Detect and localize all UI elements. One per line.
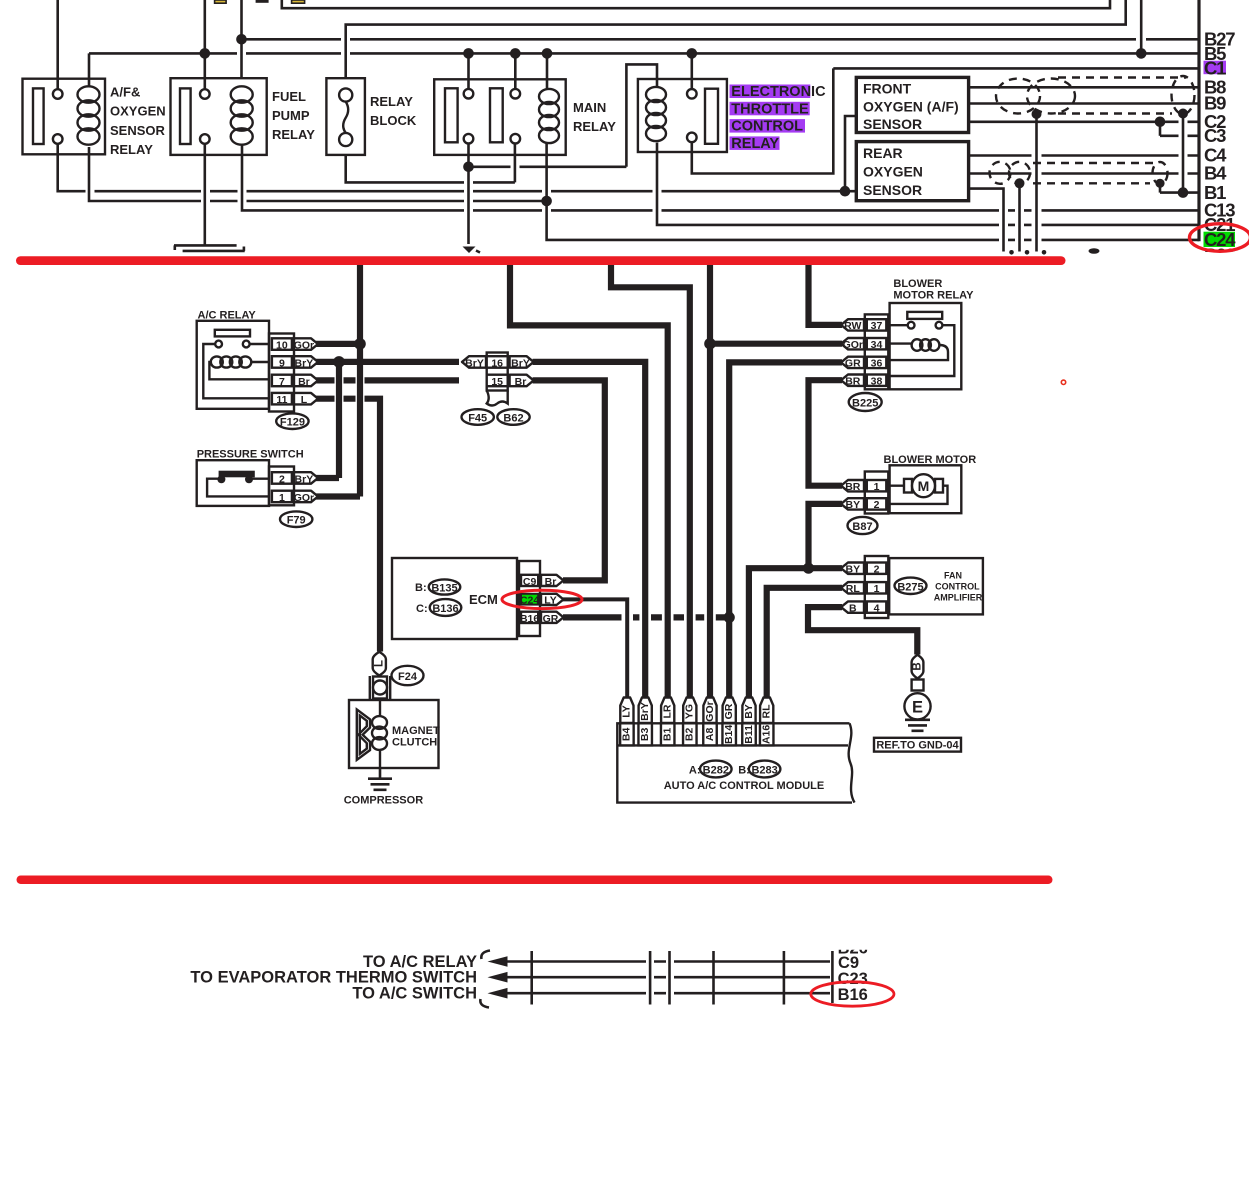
connector boundary bottom — [831, 951, 834, 1003]
label wire colour Br pin7 — [294, 375, 318, 388]
label wire colour BR pin1 — [841, 480, 864, 493]
pin B16 — [520, 613, 539, 625]
svg-text:FAN: FAN — [944, 571, 962, 581]
arrow to evaporator thermo switch — [488, 972, 508, 983]
wire A/C relay pin10 GOr — [316, 341, 360, 347]
ground E earth point — [904, 693, 930, 731]
pin B11 module — [742, 723, 756, 745]
label wire colour BY pin2 — [841, 498, 864, 511]
svg-text:16: 16 — [491, 357, 503, 369]
svg-text:11: 11 — [276, 394, 287, 406]
label MAIN RELAY — [573, 100, 616, 134]
node rear shield right dot — [1155, 179, 1164, 188]
wire A/F relay contact line to sensors — [58, 144, 857, 192]
connector designator F79 — [280, 511, 312, 527]
svg-text:BrY: BrY — [639, 702, 651, 721]
svg-text:B16: B16 — [520, 613, 539, 625]
svg-text:BLOCK: BLOCK — [370, 113, 417, 128]
svg-text:BrY: BrY — [465, 357, 484, 369]
svg-text:B3: B3 — [639, 728, 651, 742]
connector bullet RL module — [760, 698, 773, 724]
relay K1 A/C relay — [197, 310, 269, 409]
pin 16 — [487, 353, 508, 391]
svg-text:A:: A: — [689, 764, 701, 776]
pin C9 — [523, 576, 537, 588]
pin 15 — [487, 375, 508, 388]
wire B5 bus line — [89, 52, 1199, 55]
svg-text:BY: BY — [743, 704, 755, 719]
pin A16 module — [760, 723, 774, 745]
node rear sensor branch dot — [840, 186, 851, 197]
label B8 — [1204, 77, 1226, 98]
label C24 highlighted — [1204, 229, 1237, 250]
wire ETC contact top — [690, 53, 693, 89]
svg-text:GOr: GOr — [294, 492, 314, 504]
node cropped dot sliver — [1089, 248, 1100, 254]
svg-text:CONTROL: CONTROL — [935, 582, 980, 592]
svg-text:B283: B283 — [751, 765, 777, 777]
clutch magnet clutch box — [349, 700, 440, 768]
svg-text:C24: C24 — [520, 594, 539, 606]
wire main relay coil top — [546, 53, 549, 90]
pin 2 fan amp — [874, 564, 880, 576]
connector bullet YG module — [683, 698, 696, 724]
svg-text:BrY: BrY — [295, 473, 314, 485]
wire right feed vertical to B5 — [1140, 0, 1143, 53]
svg-text:L: L — [373, 660, 385, 667]
wire main relay contact1 top — [467, 53, 470, 89]
module U6 ECM — [392, 558, 517, 639]
node B5 dot at main relay contact1 — [463, 48, 474, 59]
wire BY blower motor pin2 to fan amp and module B11 — [749, 504, 842, 698]
wire BR blower relay pin38 to blower motor pin1 — [809, 380, 843, 486]
connector designator B62 — [497, 409, 529, 425]
connector joint box — [912, 680, 924, 691]
wire B4 bus line — [969, 172, 1199, 175]
connector relay block box — [326, 78, 365, 155]
connector designator F45 — [462, 409, 494, 425]
label C23 bottom — [838, 970, 868, 988]
svg-text:A8: A8 — [704, 728, 716, 742]
connector bullet LR module — [661, 698, 674, 724]
connector inline pair left — [649, 951, 652, 1005]
wire rear shield drain down — [1018, 183, 1021, 251]
label wire colour RL fan amp — [841, 582, 864, 595]
svg-text:ECM: ECM — [469, 592, 498, 607]
wire A/F relay coil line to dot — [89, 53, 547, 201]
node B5 dot at right feed — [1136, 48, 1147, 59]
connector tick 3 — [783, 951, 786, 1005]
ground G1 fuel pump contact — [174, 245, 245, 251]
svg-text:RELAY: RELAY — [110, 142, 153, 157]
node rear shield left dot — [1015, 178, 1025, 188]
connector bullet GOr module — [703, 698, 716, 724]
connector designator B225 — [849, 393, 882, 411]
label wire colour RW pin37 — [841, 319, 864, 332]
svg-text:MAGNET: MAGNET — [392, 725, 440, 737]
label B16 bottom — [838, 986, 868, 1004]
wire C2 to C3 jog — [1159, 122, 1162, 136]
label wire colour BR pin38 — [841, 375, 864, 388]
wire C4 bus line — [969, 154, 1199, 157]
node BY junction dot — [803, 563, 814, 574]
wire B9 bus line — [969, 102, 1199, 105]
wire feed4 to module A8 GOr — [707, 265, 713, 698]
label B4 — [1204, 163, 1227, 184]
wire branch up to front sensor left pin — [845, 116, 856, 191]
wire ETC contact bottom run to C1 — [692, 68, 834, 173]
wire feed5 to blower motor relay pin37 RW — [809, 265, 843, 325]
svg-text:BR: BR — [845, 481, 861, 493]
label C21 — [1204, 214, 1235, 235]
boundary connector line right — [1197, 0, 1200, 241]
svg-text:10: 10 — [276, 339, 288, 351]
ground compressor earth — [344, 768, 424, 807]
svg-text:RELAY: RELAY — [573, 119, 616, 134]
connector ECM pin column — [519, 561, 540, 636]
wire BrY B62 to module B3 — [533, 362, 646, 698]
label TO A/C RELAY — [363, 953, 477, 971]
pin 37 — [871, 320, 883, 332]
svg-text:RELAY: RELAY — [731, 136, 779, 152]
pin 10 — [276, 339, 288, 351]
svg-text:AMPLIFIER: AMPLIFIER — [934, 593, 983, 603]
switch S1 pressure switch — [197, 449, 304, 506]
svg-text:PUMP: PUMP — [272, 108, 310, 123]
svg-text:MOTOR RELAY: MOTOR RELAY — [893, 290, 974, 302]
connector B275 pin column — [865, 556, 889, 618]
svg-text:38: 38 — [871, 376, 883, 388]
svg-text:C3: C3 — [1204, 125, 1226, 146]
wire A/C relay pin7 Br to F45 — [316, 377, 459, 383]
svg-text:GR: GR — [543, 613, 559, 625]
label B9 — [1204, 93, 1226, 114]
relay U2 fuel pump relay box — [171, 78, 267, 155]
arrow to A/C switch — [488, 988, 508, 999]
label B5 — [1204, 43, 1226, 64]
svg-text:7: 7 — [279, 376, 285, 388]
label wire colour BrY pin9 — [294, 356, 318, 369]
label C2 — [1204, 111, 1226, 132]
connector bullet B ground lead — [912, 655, 924, 679]
pin 2 blower motor — [874, 499, 880, 511]
torn wire curl bottom — [480, 999, 489, 1008]
wire pressure switch pin1 GOr — [316, 493, 360, 499]
highlight red circle around C24 — [1190, 224, 1249, 252]
fuse F24 holder — [370, 676, 390, 700]
relay K2 blower motor relay — [890, 278, 975, 389]
sensor front oxygen A/F sensor box — [856, 77, 968, 132]
svg-text:F45: F45 — [468, 413, 487, 425]
wire relay block top feed y=24.6 — [346, 0, 1126, 78]
connector bullet BrY module — [639, 698, 652, 724]
wire A/C relay pin9 BrY to F45 — [316, 359, 459, 365]
pin 38 — [871, 376, 883, 388]
wire cropped box bottom edge y=8 — [282, 0, 1110, 8]
node B5 dot at fuel pump contact — [200, 48, 211, 59]
svg-text:F129: F129 — [280, 417, 305, 429]
svg-text:LY: LY — [621, 705, 633, 717]
label ELECTRONIC THROTTLE CONTROL RELAY highlighted — [730, 84, 827, 152]
node front shield left dot — [1032, 109, 1042, 119]
pin 2 — [279, 473, 285, 485]
svg-text:B:: B: — [415, 582, 427, 594]
svg-text:4: 4 — [874, 602, 880, 614]
svg-text:SENSOR: SENSOR — [863, 116, 922, 132]
node cropped dash remnants — [1009, 250, 1046, 255]
svg-text:BrY: BrY — [295, 357, 314, 369]
svg-text:TO A/C SWITCH: TO A/C SWITCH — [352, 985, 477, 1003]
label wire colour GR pin36 — [841, 357, 864, 370]
svg-text:B136: B136 — [432, 603, 458, 615]
svg-text:F79: F79 — [287, 515, 306, 527]
svg-text:B2: B2 — [684, 728, 696, 742]
connector designator B87 — [848, 517, 878, 534]
svg-text:36: 36 — [871, 358, 883, 370]
wire rear shield drain right vertical — [1159, 183, 1162, 192]
wire ground net from main relay contact1 — [467, 143, 470, 244]
svg-text:B1: B1 — [661, 728, 673, 742]
pin B1 module — [661, 723, 675, 745]
label C13 — [1204, 200, 1235, 221]
svg-text:B135: B135 — [431, 583, 457, 595]
svg-text:GOr: GOr — [704, 701, 716, 721]
label wire colour GOr pin10 — [294, 338, 318, 351]
label C9 bottom — [838, 954, 859, 972]
svg-text:BLOWER: BLOWER — [893, 278, 942, 290]
svg-text:OXYGEN (A/F): OXYGEN (A/F) — [863, 98, 959, 114]
wire GR blower motor relay pin36 to module B14 — [729, 362, 842, 697]
svg-text:RL: RL — [760, 704, 772, 719]
svg-text:LY: LY — [544, 594, 556, 606]
svg-text:2: 2 — [279, 473, 285, 485]
svg-text:2: 2 — [874, 499, 880, 511]
wire relay block bottom to main relay contact2 — [346, 143, 515, 182]
wire main relay contact2 top — [514, 53, 517, 89]
label wire colour LY ECM — [541, 594, 564, 607]
wire feed1 to A/C relay and pressure switch — [357, 265, 363, 497]
wire B1 bus line — [1160, 191, 1199, 194]
svg-text:34: 34 — [871, 339, 883, 351]
svg-text:E: E — [912, 698, 923, 716]
svg-text:RELAY: RELAY — [272, 127, 315, 142]
label C4 — [1204, 145, 1227, 166]
connector bullet GR module — [723, 698, 736, 724]
wire C3 bus line — [1160, 135, 1199, 138]
shield front twisted pair dashed — [996, 76, 1195, 114]
wire BrY branch to pressure switch pin2 — [316, 362, 339, 478]
pin 1 blower motor — [874, 481, 880, 493]
label FUEL PUMP RELAY — [272, 89, 315, 142]
wire RL fan amp pin1 to module A16 — [767, 588, 842, 698]
wire C13 bus line from fuel pump relay coil — [242, 144, 1199, 211]
sensor rear oxygen sensor box — [856, 142, 968, 201]
svg-text:RL: RL — [846, 583, 861, 595]
highlight red circle around B16 — [811, 982, 894, 1006]
node GR ECM junction dot — [724, 612, 735, 623]
wire B27 bus line — [242, 38, 1200, 41]
label C3 — [1204, 125, 1226, 146]
connector F45 B62 inline pair — [462, 356, 486, 369]
wire B fan amp pin4 to ground bullet — [808, 607, 917, 654]
svg-text:B87: B87 — [852, 521, 872, 533]
label A/F and OXYGEN SENSOR RELAY — [110, 85, 166, 158]
node GOr blower relay dot — [704, 338, 716, 350]
wire C21 bus line from ETC relay coil — [657, 143, 1199, 225]
svg-text:YG: YG — [684, 704, 696, 719]
pin A8 module — [703, 723, 717, 745]
pin 9 — [279, 357, 285, 369]
separator red bar 2 — [17, 876, 1053, 885]
svg-text:L: L — [301, 394, 308, 406]
node B5 dot at main relay coil — [542, 48, 553, 59]
label REF.TO GND-04 — [874, 738, 961, 752]
wire A/C relay pin11 L to magnet clutch — [316, 399, 380, 652]
label wire colour GOr pin34 — [841, 338, 864, 351]
svg-text:9: 9 — [279, 357, 285, 369]
svg-text:A/F&: A/F& — [110, 85, 140, 100]
label wire colour Br ECM — [541, 575, 564, 588]
pin 1 fan amp — [874, 583, 880, 595]
connector tick 2 — [712, 951, 715, 1005]
node front shield right dot — [1178, 109, 1188, 119]
connector designator F24 — [392, 666, 424, 685]
wire front shield drain down — [1035, 114, 1038, 252]
pin C24 highlighted green — [520, 594, 539, 606]
svg-text:CONTROL: CONTROL — [731, 119, 803, 135]
label B1 — [1204, 182, 1226, 203]
motor M1 blower motor — [884, 454, 977, 513]
ground G2 main relay cut symbol — [463, 247, 481, 254]
svg-text:REAR: REAR — [863, 145, 903, 161]
svg-text:A16: A16 — [760, 725, 772, 744]
svg-text:B225: B225 — [852, 398, 878, 410]
connector F79 pin column — [269, 467, 294, 506]
svg-text:B4: B4 — [1204, 163, 1227, 184]
svg-text:B16: B16 — [838, 986, 868, 1004]
wire feed3 to module B2 YG — [611, 265, 690, 698]
wire B8 bus line — [969, 86, 1199, 89]
svg-text:OXYGEN: OXYGEN — [863, 164, 923, 180]
wire fuel pump contact to ground — [204, 144, 207, 247]
wire rear sensor third pin down — [969, 189, 1004, 252]
node main relay coil dot — [541, 196, 552, 207]
connector inline pair right — [668, 951, 671, 1005]
label C1 highlighted — [1204, 58, 1227, 79]
label wire colour B fan amp — [841, 601, 864, 614]
wire Br B62 to ECM C9 — [533, 380, 605, 580]
label wire colour GOr pin1 — [294, 491, 318, 504]
svg-text:BR: BR — [845, 376, 861, 388]
label TO A/C SWITCH — [352, 985, 477, 1003]
svg-text:CLUTCH: CLUTCH — [392, 737, 437, 749]
svg-text:1: 1 — [874, 583, 880, 595]
connector torn edge wave — [487, 391, 508, 406]
node feed1 GOr junction dot — [354, 338, 366, 350]
connector bullet BY module — [742, 698, 755, 724]
cropped highlighted box remnant top-left — [215, 0, 227, 3]
svg-text:FUEL: FUEL — [272, 89, 306, 104]
svg-text:Br: Br — [298, 376, 310, 388]
svg-text:GR: GR — [723, 703, 735, 719]
pin 1 — [279, 492, 285, 504]
svg-text:MAIN: MAIN — [573, 100, 606, 115]
svg-text:RELAY: RELAY — [370, 94, 413, 109]
wire B16 line bottom — [504, 992, 830, 995]
amplifier U5 fan control amplifier — [889, 558, 983, 614]
wire C2 bus line — [969, 121, 1199, 124]
pin 36 — [871, 358, 883, 370]
svg-text:B: B — [849, 602, 857, 614]
separator red bar 1 — [16, 256, 1066, 265]
svg-text:B62: B62 — [503, 413, 523, 425]
shield rear twisted pair dashed — [990, 162, 1168, 184]
label wire colour Br right — [510, 375, 534, 388]
label wire colour BrY pin2 — [294, 472, 318, 485]
node B5 dot at main relay contact2 — [510, 48, 521, 59]
svg-text:1: 1 — [874, 481, 880, 493]
svg-text:BrY: BrY — [511, 357, 530, 369]
wire feed2 to module B1 LR — [510, 265, 668, 698]
label wire colour L pin11 — [294, 393, 318, 406]
svg-text:B4: B4 — [621, 728, 633, 742]
svg-text:1: 1 — [279, 492, 285, 504]
label wire colour GR ECM — [541, 612, 564, 625]
wire main relay coil bottom — [545, 142, 548, 201]
pin B4 module — [620, 723, 634, 745]
pin 4 fan amp — [874, 602, 880, 614]
cropped highlighted box remnant 3 — [292, 0, 305, 3]
wire C23 line bottom — [504, 976, 830, 979]
svg-text:OXYGEN: OXYGEN — [110, 104, 166, 119]
connector designator F129 — [276, 413, 308, 429]
module U7 auto A/C control module — [617, 723, 854, 802]
pin 7 — [279, 376, 285, 388]
svg-text:AUTO A/C CONTROL MODULE: AUTO A/C CONTROL MODULE — [664, 780, 825, 792]
svg-text:B275: B275 — [897, 581, 923, 593]
svg-text:GOr: GOr — [843, 339, 863, 351]
svg-text:FRONT: FRONT — [863, 81, 912, 97]
highlight red circle around ECM C24 LY — [502, 590, 582, 608]
svg-text:C1: C1 — [1204, 58, 1226, 79]
arrow to A/C relay — [488, 956, 508, 967]
node ground net dot — [463, 162, 474, 173]
wire A/F relay top contact feed — [56, 0, 59, 89]
wire fuel pump relay top contact feed — [204, 0, 207, 89]
svg-text:B: B — [912, 662, 924, 670]
torn wire curl top — [481, 951, 490, 960]
svg-text:GOr: GOr — [294, 339, 314, 351]
relay U1 A/F and oxygen sensor relay box — [23, 79, 106, 155]
svg-text:GR: GR — [845, 358, 861, 370]
connector B225 pin column — [865, 314, 889, 389]
node B1 shield drain dot — [1178, 187, 1189, 198]
svg-text:REF.TO GND-04: REF.TO GND-04 — [876, 739, 959, 751]
svg-text:THROTTLE: THROTTLE — [731, 101, 809, 117]
connector bullet LY module — [620, 698, 633, 724]
node B5 dot at ETC relay contact — [687, 48, 698, 59]
svg-text:B11: B11 — [743, 725, 755, 744]
pin B3 module — [638, 723, 652, 745]
svg-text:F24: F24 — [398, 671, 418, 683]
pin 11 — [276, 394, 287, 406]
svg-text:C:: C: — [416, 603, 428, 615]
wire GR ECM B16 to junction — [563, 614, 729, 620]
svg-text:B282: B282 — [703, 765, 729, 777]
label RELAY BLOCK — [370, 94, 417, 128]
svg-text:BY: BY — [846, 499, 861, 511]
node BrY junction dot — [333, 356, 345, 368]
